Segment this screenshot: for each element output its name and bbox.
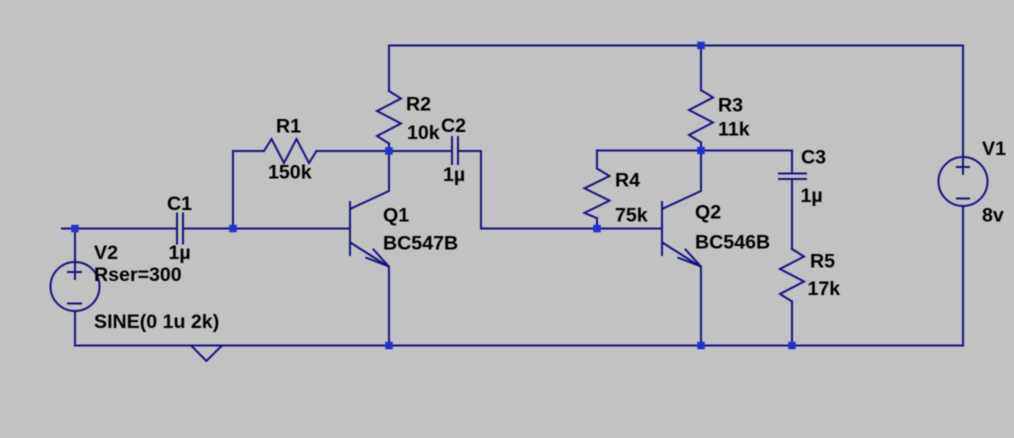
svg-text:17k: 17k bbox=[808, 278, 841, 300]
svg-text:BC547B: BC547B bbox=[383, 233, 458, 255]
wire collector node to C2 bbox=[389, 150, 452, 152]
node junction top rail R3 bbox=[697, 42, 705, 50]
svg-text:1µ: 1µ bbox=[801, 185, 823, 207]
wire C2 to Q2 base bbox=[458, 151, 662, 229]
voltage source V2 bbox=[51, 262, 100, 311]
wire C1 to Q1 base bbox=[183, 228, 350, 230]
wire R1 left lead bbox=[233, 150, 264, 152]
svg-text:R4: R4 bbox=[615, 170, 640, 192]
svg-text:10k: 10k bbox=[407, 122, 440, 144]
wire top rail bbox=[389, 45, 963, 47]
svg-text:1µ: 1µ bbox=[169, 242, 191, 264]
node junction Q1 collector bbox=[385, 147, 393, 155]
wire Q2 collector node to C3 bbox=[701, 150, 792, 152]
wire C3 top lead bbox=[791, 151, 793, 174]
resistor R3 bbox=[689, 46, 713, 151]
ground bbox=[192, 347, 221, 362]
svg-text:8v: 8v bbox=[982, 205, 1004, 227]
node junction R4 base bbox=[593, 225, 601, 233]
capacitor C1 bbox=[177, 214, 183, 244]
svg-text:11k: 11k bbox=[718, 119, 750, 141]
node junction Q2 collector bbox=[697, 147, 705, 155]
transistor Q2 bbox=[662, 151, 701, 346]
resistor R2 bbox=[377, 46, 401, 152]
wire bottom rail bbox=[75, 345, 963, 347]
wire R1 left vertical bbox=[232, 151, 234, 229]
wire V1 bottom drop bbox=[962, 206, 964, 346]
wire V2 bottom lead bbox=[74, 311, 76, 346]
svg-text:C2: C2 bbox=[441, 115, 466, 137]
capacitor C3 bbox=[779, 174, 806, 180]
svg-text:V1: V1 bbox=[982, 138, 1006, 160]
transistor Q1 bbox=[350, 151, 389, 346]
node junction V2/C1 bbox=[71, 225, 79, 233]
wire R1 right lead bbox=[317, 150, 390, 152]
wire V2 top lead bbox=[74, 229, 76, 280]
svg-text:R5: R5 bbox=[810, 251, 835, 273]
resistor R4 bbox=[585, 151, 610, 229]
wire C3 to R5 bbox=[791, 179, 793, 249]
svg-text:BC546B: BC546B bbox=[695, 232, 770, 254]
wire R4 top rail bbox=[597, 150, 701, 152]
node junction Q2 emitter bottom bbox=[697, 342, 705, 350]
capacitor C2 bbox=[452, 137, 458, 164]
svg-text:Q1: Q1 bbox=[383, 205, 409, 227]
svg-text:R3: R3 bbox=[718, 95, 743, 117]
svg-text:C3: C3 bbox=[801, 147, 826, 169]
svg-text:R2: R2 bbox=[406, 94, 431, 116]
node junction Q1 emitter bottom bbox=[385, 342, 393, 350]
resistor R5 bbox=[780, 249, 804, 302]
wire V1 top drop bbox=[962, 46, 964, 175]
svg-text:1µ: 1µ bbox=[443, 164, 465, 186]
node junction R5 bottom bbox=[788, 342, 796, 350]
node junction R1/C1 bbox=[229, 225, 237, 233]
svg-text:Q2: Q2 bbox=[695, 202, 721, 224]
svg-text:150k: 150k bbox=[268, 162, 312, 184]
svg-text:V2: V2 bbox=[94, 242, 118, 264]
svg-text:75k: 75k bbox=[615, 205, 648, 227]
resistor R1 bbox=[264, 139, 317, 163]
voltage source V1 bbox=[939, 157, 988, 206]
wire R5 bottom lead bbox=[791, 302, 793, 346]
svg-text:R1: R1 bbox=[276, 116, 301, 138]
svg-text:SINE(0 1u 2k): SINE(0 1u 2k) bbox=[94, 311, 219, 333]
svg-text:C1: C1 bbox=[167, 193, 192, 215]
wire input to C1 bbox=[62, 228, 177, 230]
svg-text:Rser=300: Rser=300 bbox=[94, 264, 182, 286]
